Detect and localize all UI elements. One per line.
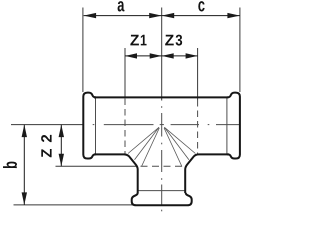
tee body outline — [83, 93, 240, 206]
extension line branch center (top, for a/c and Z1/Z3) — [161, 8, 163, 101]
label Z3 — [165, 35, 182, 46]
bead step line left socket — [95, 97, 97, 154]
label Z1 — [130, 35, 146, 46]
dimension Z1 line with arrows — [125, 55, 162, 57]
extension line left face (for dimension a) — [82, 8, 84, 93]
dimension b line with arrows — [23, 125, 25, 205]
right socket bead profile — [227, 93, 240, 159]
label b (rotated) — [3, 162, 17, 169]
socket depth dashed line branch — [141, 165, 186, 167]
label a — [118, 1, 125, 11]
dimension Z3 line with arrows — [162, 55, 198, 57]
dimension a line with arrows — [84, 15, 162, 17]
left socket bead profile — [83, 93, 96, 159]
vertical centerline (dash-dot through branch) — [161, 106, 163, 211]
bottom edge left segment + taper into branch — [94, 154, 138, 193]
bead step line right socket — [226, 97, 228, 154]
top edge — [94, 96, 228, 98]
label c — [198, 1, 204, 11]
horizontal centerline (dash-dot through body) — [93, 124, 241, 126]
extension line right face (for dimension c) — [239, 8, 241, 93]
label Z2 (rotated) — [41, 135, 51, 157]
socket depth dashed line right — [197, 100, 199, 154]
transition fillet lines (radiating from center) — [128, 127, 195, 166]
extension line centerline level (left, for b and Z2 top) — [11, 124, 84, 126]
dimension Z2 line with arrows — [60, 125, 62, 167]
bottom edge right segment + taper into branch — [185, 154, 229, 193]
extension line Z3 right (socket depth) — [197, 48, 199, 100]
socket depth dashed line left — [124, 99, 126, 155]
dimension c line with arrows — [162, 15, 240, 17]
bead step line branch — [138, 190, 186, 192]
branch bottom bead profile — [132, 193, 192, 206]
extension line branch bottom face (for b) — [14, 204, 137, 206]
extension line branch socket depth (for Z2) — [56, 165, 138, 167]
extension line Z1 left (socket depth) — [124, 48, 126, 98]
